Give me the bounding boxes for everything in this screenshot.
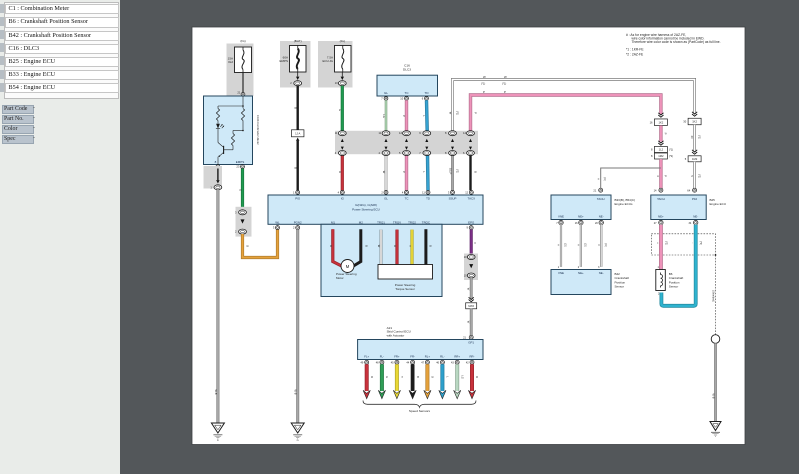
- svg-text:W: W: [504, 75, 507, 79]
- junction IK2 on pink wire: [650, 113, 668, 126]
- ECU bottom pin TRQV: [392, 220, 401, 229]
- power steering ECU box: [268, 195, 483, 224]
- svg-text:LG: LG: [382, 114, 386, 118]
- wire W-B from meter pin8 to ground: [214, 190, 218, 423]
- wire cyan TD DLC3 to band: [422, 100, 427, 131]
- svg-text:(*1): (*1): [669, 149, 673, 152]
- skid ECU pin FL+ and speed sensor wire: [361, 354, 373, 398]
- wire black TACH band to ECU: [471, 156, 478, 191]
- svg-text:R: R: [370, 376, 373, 378]
- svg-text:(Shielded): (Shielded): [712, 290, 715, 302]
- svg-text:EMPS: EMPS: [279, 59, 288, 63]
- wire TRQ2 yellow: [408, 230, 412, 265]
- svg-text:(*2): (*2): [697, 174, 700, 178]
- svg-text:M1: M1: [331, 220, 335, 224]
- speed sensors brace: [363, 401, 476, 413]
- ECU bottom pin TRQ2: [407, 220, 416, 229]
- svg-text:NE+: NE+: [578, 215, 584, 219]
- shield ground circle: [711, 335, 720, 344]
- wire pink NE+ to B6 sensor: [656, 225, 668, 270]
- svg-text:1K2: 1K2: [659, 120, 664, 124]
- svg-text:PIG: PIG: [295, 196, 301, 200]
- svg-text:B: B: [428, 245, 432, 247]
- svg-text:FL+: FL+: [364, 354, 369, 358]
- ECU bottom pin EPG: [467, 220, 475, 229]
- junction connector ovals at x=406.5: [399, 131, 410, 156]
- connector column below meter pin 8: [204, 166, 223, 190]
- svg-text:G: G: [239, 189, 243, 191]
- svg-text:GL: GL: [384, 196, 388, 200]
- svg-text:(IG): (IG): [240, 39, 245, 43]
- pink wire horizontal to B25 TACH: [471, 90, 661, 131]
- fuse 60A EMPS (BAT): [279, 39, 310, 87]
- skid ECU pin RR- and speed sensor wire: [466, 354, 478, 398]
- svg-text:(*1): (*1): [481, 82, 485, 86]
- skid ECU pin RL- and speed sensor wire: [436, 354, 448, 398]
- svg-text:P: P: [664, 133, 668, 135]
- svg-text:*1 : 1KR-FE: *1 : 1KR-FE: [626, 48, 644, 52]
- svg-text:P: P: [473, 112, 477, 114]
- svg-text:TACX: TACX: [468, 196, 476, 200]
- fuse 7.5A ECU-IG (IG): [318, 39, 353, 87]
- wire pink TC DLC3 to band: [402, 100, 406, 131]
- svg-text:FR-: FR-: [410, 354, 415, 358]
- wire EMPS green from meter pin 23: [239, 169, 243, 211]
- svg-text:O: O: [431, 376, 434, 378]
- svg-text:GP1: GP1: [468, 340, 474, 344]
- svg-text:Sensor: Sensor: [615, 285, 625, 289]
- svg-text:with Actuator: with Actuator: [387, 333, 405, 337]
- connector below ECU-IG fuse: [335, 72, 346, 86]
- meter internal circuit: [216, 96, 245, 165]
- svg-text:Engine ECU: Engine ECU: [710, 202, 727, 206]
- svg-text:TRQ1: TRQ1: [377, 220, 385, 224]
- junction connector ovals at x=426.8: [419, 131, 430, 156]
- svg-text:GL: GL: [384, 91, 388, 95]
- svg-text:(D): (D): [604, 243, 607, 247]
- wire black junction to PIG pin: [294, 141, 298, 191]
- wire M2 black: [353, 229, 368, 266]
- note text block: [626, 33, 721, 56]
- wire TRQG black: [426, 229, 433, 264]
- svg-text:NE+: NE+: [578, 271, 584, 275]
- svg-text:(IG): (IG): [340, 39, 345, 43]
- junction connector ovals at x=386: [379, 131, 390, 156]
- wire grey EPG to junction: [466, 278, 471, 299]
- wire pale green GL DLC3 to band: [382, 100, 386, 131]
- svg-text:P: P: [402, 115, 406, 117]
- B25 TACH pin: [654, 188, 663, 192]
- junction 1M2 on white wire: [685, 150, 701, 162]
- svg-text:Speed Sensors: Speed Sensors: [409, 409, 431, 413]
- skid ECU pin RL+ and speed sensor wire: [421, 354, 433, 398]
- power steering motor enclosure: [321, 224, 442, 296]
- svg-text:SSUP: SSUP: [449, 196, 457, 200]
- junction 1L2/1M2 stacked on pink wire: [651, 141, 673, 159]
- wire B33 TACH to junction: [596, 168, 661, 190]
- wire TRQ1 white: [377, 230, 381, 265]
- pink wire to B25 TACH pin: [656, 159, 667, 190]
- ground IE left: [211, 423, 224, 442]
- svg-text:Motor: Motor: [336, 276, 344, 280]
- wire green ECU-IG fuse to band: [338, 86, 342, 131]
- wire white GL band to ECU: [382, 156, 386, 191]
- DLC3 pin TC: [400, 97, 408, 101]
- svg-text:TACH: TACH: [657, 197, 665, 201]
- svg-text:SSUP: SSUP: [448, 168, 451, 175]
- svg-text:RL-: RL-: [440, 354, 445, 358]
- svg-text:FR+: FR+: [394, 354, 400, 358]
- wire B33 to B42 sensor 1: [557, 225, 567, 269]
- skid ECU pin FR+ and speed sensor wire: [391, 354, 403, 398]
- wire pink TC band to ECU: [402, 156, 406, 191]
- svg-text:P10: P10: [692, 197, 698, 201]
- svg-text:EPG: EPG: [468, 220, 475, 224]
- svg-text:1L2: 1L2: [659, 148, 664, 152]
- B33 TACH pin: [593, 188, 602, 192]
- skid ECU pin RR+ and speed sensor wire: [451, 354, 463, 398]
- power steering motor: [336, 260, 357, 281]
- svg-text:W: W: [377, 245, 381, 248]
- ECU top pin PIG: [293, 190, 301, 200]
- wire TRQV red: [393, 230, 397, 265]
- svg-text:21: 21: [237, 91, 241, 95]
- ECU bottom pin TRQC: [421, 220, 430, 229]
- svg-text:Engine ECUs: Engine ECUs: [615, 202, 634, 206]
- pink wire segment: [661, 126, 668, 142]
- svg-text:V: V: [473, 242, 477, 244]
- ECU top pin TC: [402, 190, 409, 200]
- svg-text:NE-: NE-: [599, 215, 604, 219]
- svg-text:1M2: 1M2: [692, 157, 698, 161]
- engine ECU B33/B54 box: [551, 195, 635, 220]
- fuse 15A IG2 (IG): [227, 39, 254, 96]
- ECU bottom pin PGN2: [293, 220, 302, 229]
- junction chevron MA5: [466, 297, 477, 309]
- svg-text:P: P: [483, 90, 485, 94]
- svg-text:WL: WL: [275, 220, 280, 224]
- svg-text:O: O: [245, 245, 249, 247]
- svg-text:R: R: [338, 171, 342, 173]
- svg-text:RL+: RL+: [425, 354, 431, 358]
- svg-text:(D): (D): [564, 243, 567, 247]
- svg-text:PGN2: PGN2: [294, 220, 302, 224]
- B33 bottom pin at x=561: [556, 220, 563, 224]
- combination meter C10b box: [204, 96, 261, 165]
- junction box 1J on PIG wire: [291, 130, 304, 141]
- svg-text:FL-: FL-: [380, 354, 384, 358]
- svg-text:(BAT): (BAT): [294, 39, 302, 43]
- wire grey SSUP band to ECU: [448, 156, 458, 191]
- svg-text:Y: Y: [408, 245, 412, 247]
- svg-text:(D): (D): [584, 243, 587, 247]
- white wire segment: [690, 125, 700, 151]
- junction connector ovals at x=452.5: [445, 131, 456, 156]
- skid ECU pin FL- and speed sensor wire: [376, 354, 388, 398]
- wire red band to IG pin: [338, 156, 342, 191]
- ECU bottom pin WL: [273, 220, 280, 229]
- wire W-B from PGN2 to ground: [294, 230, 298, 423]
- svg-text:1M2: 1M2: [658, 154, 664, 158]
- svg-text:VNE: VNE: [558, 271, 564, 275]
- white wire horizontal to right engine ECU (W *1): [449, 75, 695, 131]
- junction connector ovals at x=470.5: [463, 131, 474, 156]
- svg-text:TACH: TACH: [597, 197, 605, 201]
- svg-text:G: G: [338, 109, 342, 111]
- B25 P10 pin: [687, 188, 696, 192]
- B25 NE- pin: [689, 220, 698, 224]
- svg-text:LG: LG: [460, 375, 463, 378]
- ECU bottom pin M2: [356, 220, 363, 229]
- svg-text:1J A: 1J A: [295, 131, 300, 135]
- svg-text:(*2): (*2): [699, 241, 702, 245]
- wire EPG violet: [471, 230, 477, 255]
- DLC3 pin TD: [422, 97, 429, 101]
- svg-text:B: B: [473, 171, 477, 173]
- svg-text:W-B: W-B: [214, 390, 218, 395]
- ECU top pin SSUP: [448, 190, 457, 200]
- wire grey to GP1: [466, 309, 471, 336]
- meter pin EMPS 23: [236, 165, 244, 169]
- svg-text:*2 : 2AZ-FE: *2 : 2AZ-FE: [626, 52, 644, 56]
- svg-text:DLC3: DLC3: [403, 68, 411, 72]
- svg-text:Power Steering ECU: Power Steering ECU: [352, 208, 380, 212]
- orange wire to WL: [243, 228, 278, 258]
- svg-text:C10b Combination Meter: C10b Combination Meter: [256, 115, 260, 145]
- wire M1 red: [329, 229, 342, 266]
- B25 NE+ pin: [654, 220, 663, 224]
- svg-text:G: G: [385, 376, 388, 378]
- shield dashed box: [651, 234, 716, 256]
- svg-text:(*2): (*2): [669, 155, 673, 158]
- svg-text:ECU-IG: ECU-IG: [323, 59, 334, 63]
- svg-text:NE-: NE-: [599, 271, 604, 275]
- svg-text:R: R: [393, 245, 397, 247]
- svg-text:Therefore wire color code is s: Therefore wire color code is shown as (P…: [632, 40, 721, 44]
- ECU top pin GL: [381, 190, 388, 200]
- svg-text:R: R: [475, 376, 478, 378]
- svg-text:-: -: [691, 243, 694, 244]
- svg-text:IG2: IG2: [228, 60, 233, 64]
- ground right: [710, 422, 721, 437]
- svg-text:(*1): (*1): [456, 111, 459, 115]
- skid ECU pin GP1: [463, 335, 473, 339]
- svg-text:R: R: [329, 245, 333, 247]
- connector pair on EPG wire: [464, 254, 478, 281]
- svg-text:G(N2G), C(A08): G(N2G), C(A08): [355, 203, 377, 207]
- svg-text:TRQC: TRQC: [422, 220, 430, 224]
- wire B33 to B42 sensor 3: [597, 225, 607, 269]
- svg-text:B: B: [294, 167, 298, 169]
- wire cyan TD band to ECU: [422, 156, 428, 191]
- svg-text:VNE: VNE: [558, 215, 564, 219]
- connector IE below EMPS wire: [235, 207, 252, 237]
- svg-text:(D): (D): [603, 177, 606, 181]
- svg-text:TC: TC: [405, 196, 409, 200]
- crankshaft position sensor B42 box: [551, 270, 629, 295]
- wire cyan NE- to B6 sensor: [658, 225, 702, 306]
- diagram page background: [192, 27, 745, 445]
- svg-text:TD: TD: [426, 196, 430, 200]
- svg-text:RR+: RR+: [454, 354, 460, 358]
- svg-text:M2: M2: [359, 220, 363, 224]
- svg-text:23: 23: [236, 165, 240, 169]
- skid control ECU A21 box: [358, 326, 483, 360]
- DLC3 pin GL: [381, 97, 388, 101]
- ground IH center: [291, 423, 304, 442]
- connector below BAT fuse: [290, 72, 301, 86]
- svg-text:(*2): (*2): [455, 169, 458, 173]
- svg-text:EMPS: EMPS: [236, 160, 245, 164]
- svg-text:(*2): (*2): [664, 241, 667, 245]
- svg-text:TRQ2: TRQ2: [408, 220, 416, 224]
- svg-text:(*1): (*1): [502, 82, 506, 86]
- svg-text:B: B: [294, 107, 298, 109]
- svg-text:RR-: RR-: [470, 354, 475, 358]
- svg-text:NE-: NE-: [693, 215, 698, 219]
- svg-text:W: W: [449, 112, 453, 115]
- svg-text:Torque Sensor: Torque Sensor: [395, 287, 415, 291]
- svg-text:M: M: [346, 264, 350, 269]
- ECU top pin TD: [422, 190, 430, 200]
- junction connector ovals at x=342.3: [335, 131, 346, 156]
- junction connector band: [335, 131, 478, 154]
- ECU bottom pin M1: [328, 220, 335, 229]
- ECU top pin IG: [338, 190, 345, 200]
- svg-text:W-B: W-B: [711, 394, 715, 399]
- skid ECU pin FR- and speed sensor wire: [406, 354, 418, 398]
- svg-text:MA5: MA5: [468, 304, 474, 308]
- wire BAT black to PIG: [294, 86, 298, 130]
- svg-text:B: B: [364, 245, 368, 247]
- ECU bottom pin TRQ1: [376, 220, 385, 229]
- ECU top pin TACX: [465, 190, 475, 200]
- svg-text:1K2: 1K2: [692, 120, 697, 124]
- power steering torque sensor box: [378, 265, 433, 292]
- junction 1K2 on white wire: [683, 112, 701, 125]
- B33 bottom pin at x=580.9: [575, 220, 583, 224]
- wire W-B shield to ground: [711, 343, 715, 421]
- DLC3 C16 box: [377, 64, 438, 97]
- wire B33 to B42 sensor 2: [577, 225, 587, 269]
- svg-text:NE+: NE+: [658, 215, 664, 219]
- crankshaft position sensor B6: [656, 270, 684, 291]
- svg-text:P: P: [664, 175, 668, 177]
- svg-text:(*1): (*1): [697, 135, 700, 139]
- wire fuse IG2 to combination meter pin 21: [237, 73, 245, 97]
- engine ECU B25 box: [651, 195, 726, 220]
- B33 bottom pin at x=601.2: [595, 220, 603, 224]
- shield drain dashed line: [712, 255, 716, 335]
- meter pin 8: [216, 165, 220, 169]
- svg-text:W: W: [382, 171, 386, 174]
- svg-text:P: P: [504, 90, 506, 94]
- white wire to B25 P10 pin: [690, 162, 700, 191]
- svg-text:W-B: W-B: [294, 390, 298, 395]
- svg-text:W: W: [483, 75, 486, 79]
- svg-text:P: P: [402, 171, 406, 173]
- svg-text:TRQV: TRQV: [393, 220, 401, 224]
- svg-text:Sensor: Sensor: [669, 285, 679, 289]
